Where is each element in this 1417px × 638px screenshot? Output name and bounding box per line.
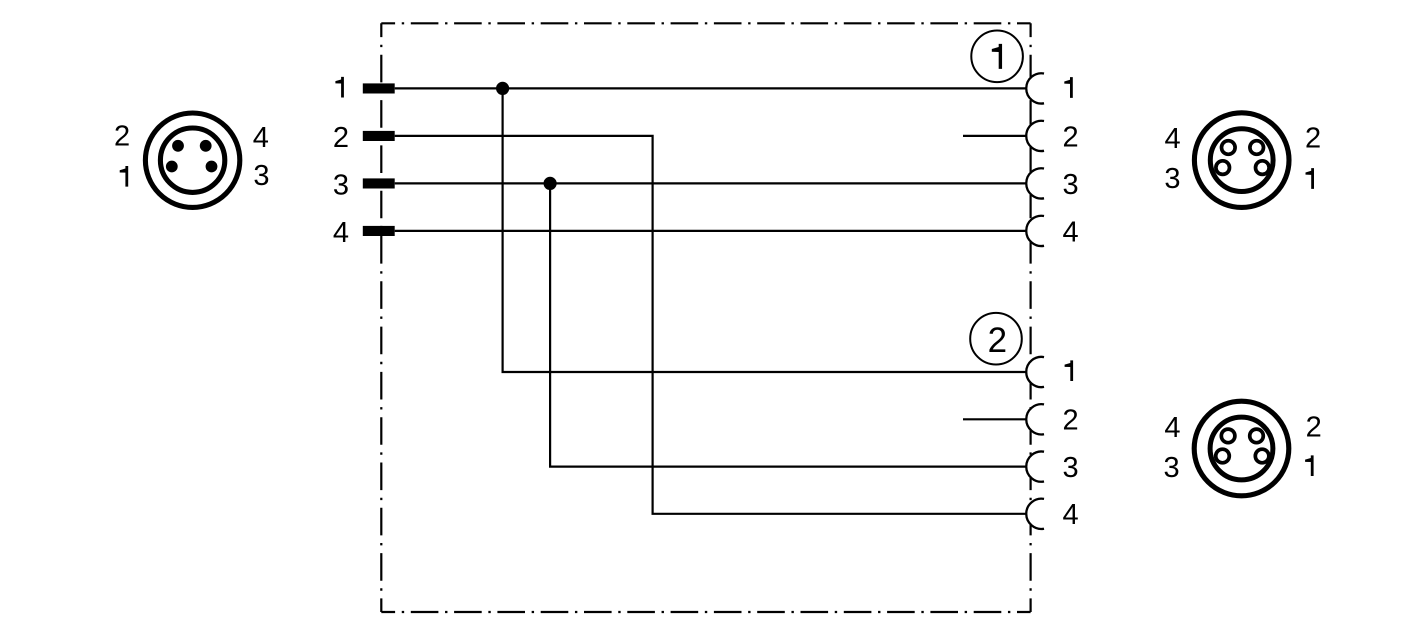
socket ring 2 (1250, 141, 1264, 155)
junction pin3 branch (544, 177, 557, 190)
svg-text:2: 2 (333, 122, 349, 154)
svg-text:2: 2 (1305, 123, 1321, 155)
pin dot 4 (200, 140, 212, 152)
socket port 2 pin 2 (1026, 404, 1056, 434)
enclosure border left edge (dash-dot) (380, 23, 382, 612)
socket port 1 pin 2 (1026, 121, 1056, 151)
input pin 1 terminal bar (363, 83, 395, 93)
stub wire port1 socket2 (963, 135, 1026, 137)
wire pin2 to port2 socket4 (395, 136, 1026, 514)
label X2 pin 1 (1306, 168, 1315, 189)
wire branch pin3 to port2 socket3 (550, 183, 1026, 466)
junction pin1 branch (496, 82, 509, 95)
socket port 1 pin 4 (1026, 216, 1056, 246)
socket port 1 pin 1 (1026, 73, 1056, 103)
socket ring 1 (1256, 161, 1270, 175)
pin dot 2 (172, 140, 184, 152)
svg-text:3: 3 (253, 160, 269, 192)
svg-text:4: 4 (1063, 216, 1079, 248)
socket ring 2 (1250, 429, 1264, 443)
input pin 2 terminal bar (363, 131, 395, 141)
wire pin4 to port1 socket4 (395, 230, 1026, 232)
stub wire port2 socket2 (963, 418, 1026, 420)
label X1 pin 1 (120, 166, 129, 187)
enclosure border bottom edge (dash-dot) (381, 611, 1030, 613)
svg-text:3: 3 (333, 169, 349, 201)
connector X3 (female M8 face, right bottom) (1194, 401, 1289, 496)
svg-text:3: 3 (1164, 452, 1180, 484)
pin dot 3 (206, 161, 218, 173)
svg-text:4: 4 (1063, 499, 1079, 531)
svg-text:3: 3 (1063, 452, 1079, 484)
connector X1 (male M8 face, left) (145, 113, 239, 207)
socket port 2 pin 4 (1026, 499, 1056, 529)
label port 2 socket 1 (1065, 360, 1074, 381)
socket port 2 pin 1 (1026, 357, 1056, 387)
input pin 3 terminal bar (363, 178, 395, 188)
port 2 id circle (970, 313, 1022, 365)
port 1 id circle (971, 31, 1023, 83)
wire pin1 to port1 socket1 (395, 87, 1026, 89)
label input pin 1 (335, 77, 344, 98)
svg-text:4: 4 (253, 122, 269, 154)
socket port 2 pin 3 (1026, 451, 1056, 481)
svg-text:2: 2 (114, 121, 130, 153)
socket port 1 pin 3 (1026, 168, 1056, 198)
label port 1 socket 1 (1064, 77, 1073, 98)
socket ring 3 (1216, 449, 1230, 463)
port 1 id digit (992, 44, 1002, 69)
svg-text:4: 4 (333, 217, 349, 249)
enclosure border top edge (dash-dot) (381, 22, 1030, 24)
svg-text:4: 4 (1165, 123, 1181, 155)
pin dot 1 (166, 161, 178, 173)
socket ring 4 (1221, 429, 1235, 443)
svg-text:2: 2 (1063, 405, 1079, 437)
svg-text:2: 2 (1063, 121, 1079, 153)
socket ring 4 (1222, 141, 1236, 155)
enclosure border right edge (dash-dot) (1029, 23, 1031, 612)
label X3 pin 1 (1305, 455, 1314, 476)
svg-text:3: 3 (1164, 163, 1180, 195)
socket ring 1 (1255, 449, 1269, 463)
wire branch pin1 to port2 socket1 (503, 88, 1027, 372)
svg-text:2: 2 (988, 321, 1007, 360)
connector X2 (female M8 face, right top) (1194, 113, 1289, 208)
svg-text:4: 4 (1164, 412, 1180, 444)
socket ring 3 (1216, 161, 1230, 175)
wire pin3 to port1 socket3 (395, 182, 1026, 184)
svg-text:2: 2 (1306, 412, 1322, 444)
input pin 4 terminal bar (363, 226, 395, 236)
svg-text:3: 3 (1063, 169, 1079, 201)
